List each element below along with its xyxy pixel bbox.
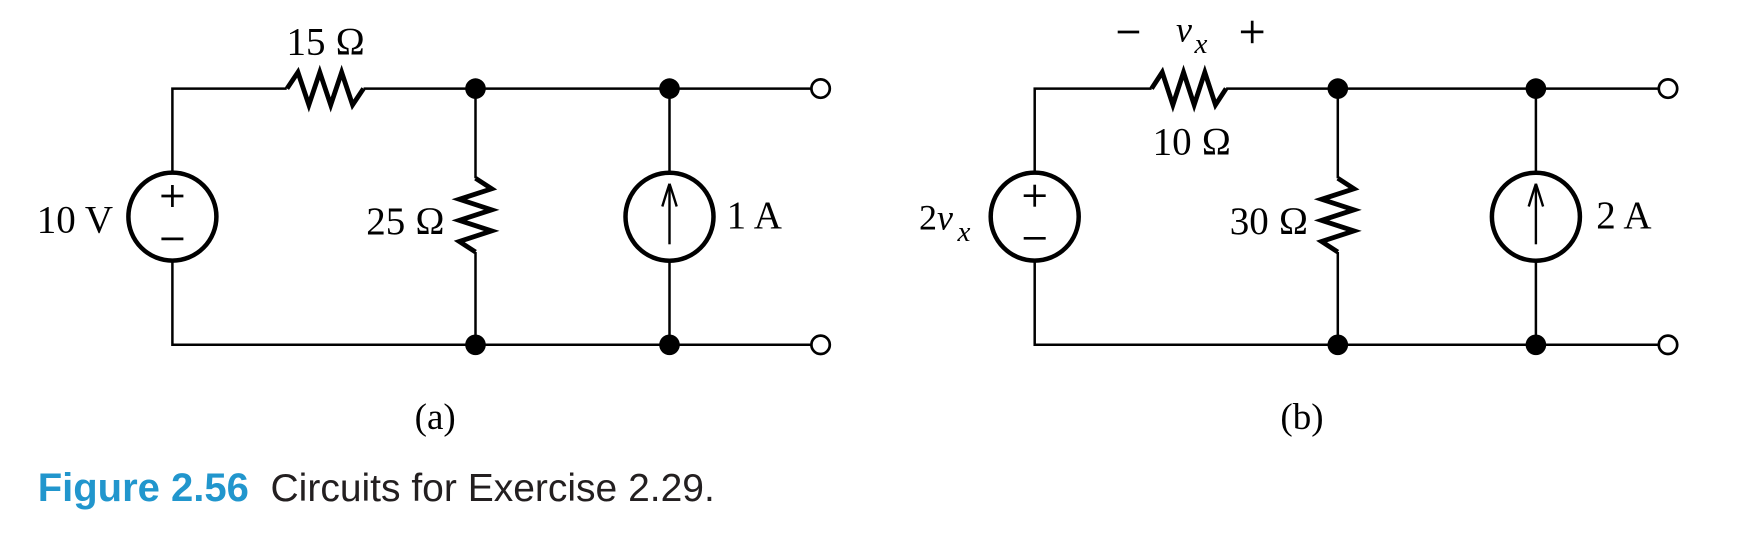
- polarity plus label above 10-ohm (b): [1241, 21, 1264, 44]
- current source (b) arrow: [1529, 184, 1543, 245]
- svg-text:15 Ω: 15 Ω: [286, 21, 365, 64]
- svg-text:2vx: 2vx: [919, 198, 970, 249]
- resistor 10 ohm (b) zigzag: [1152, 72, 1227, 105]
- node junction dot (b) top node B: [1526, 78, 1547, 99]
- resistor 30 ohm (b) zigzag: [1322, 178, 1354, 252]
- current source (a) arrow: [662, 184, 676, 245]
- node junction dot (b) bottom node B: [1526, 335, 1547, 356]
- wire: (b) current source top connector: [1535, 89, 1538, 173]
- current source Is 1A (a) circle: [626, 173, 714, 261]
- voltage source (b) plus sign: [1024, 185, 1046, 207]
- node junction dot (a) top node B: [659, 78, 680, 99]
- open terminal (a) bottom: [811, 336, 829, 354]
- node junction dot (b) top node A: [1328, 78, 1349, 99]
- svg-text:10 V: 10 V: [37, 198, 113, 241]
- svg-text:1 A: 1 A: [727, 194, 782, 237]
- open terminal (a) top: [811, 79, 829, 97]
- svg-text:Figure 2.56: Figure 2.56: [38, 466, 249, 510]
- current source Is 2A (b) circle: [1492, 173, 1580, 261]
- wire: (a) left rail top, source to top-left corner to 15-ohm resistor: [172, 89, 286, 173]
- wire: (a) current source top connector: [668, 89, 671, 173]
- svg-text:Circuits for Exercise 2.29.: Circuits for Exercise 2.29.: [271, 467, 715, 510]
- voltage source (b) minus sign: [1024, 237, 1046, 240]
- resistor 15 ohm (a) zigzag: [287, 72, 364, 105]
- polarity minus label above 10-ohm (b): [1118, 31, 1140, 34]
- voltage source 2vx (b) circle: [991, 173, 1079, 261]
- voltage source (a) minus sign: [161, 238, 183, 241]
- svg-text:10 Ω: 10 Ω: [1153, 121, 1232, 164]
- voltage source Vs 10V (a) circle: [128, 173, 216, 261]
- svg-text:2 A: 2 A: [1596, 194, 1651, 237]
- svg-text:vx: vx: [1176, 10, 1207, 61]
- svg-text:30 Ω: 30 Ω: [1230, 200, 1309, 243]
- node junction dot (a) top node A: [465, 78, 486, 99]
- wire: (a) 25-ohm top connector: [474, 89, 477, 179]
- open terminal (b) top: [1659, 79, 1677, 97]
- svg-text:25 Ω: 25 Ω: [366, 200, 445, 243]
- wire: (b) left rail top, source to top-left corner to 10-ohm resistor: [1035, 89, 1152, 173]
- wire: (b) 30-ohm bottom connector: [1337, 252, 1340, 345]
- node junction dot (b) bottom node A: [1328, 335, 1349, 356]
- wire: (b) left rail bottom and bottom rail to terminal: [1035, 260, 1659, 344]
- node junction dot (a) bottom node B: [659, 335, 680, 356]
- wire: (b) current source bottom connector: [1535, 261, 1538, 345]
- svg-text:(b): (b): [1280, 397, 1323, 438]
- voltage source (a) plus sign: [161, 185, 183, 207]
- wire: (a) left rail bottom and bottom rail to terminal: [172, 260, 811, 344]
- wire: (b) 30-ohm top connector: [1337, 89, 1340, 179]
- wire: (b) top rail from 10-ohm to open terminal: [1226, 87, 1659, 90]
- node junction dot (a) bottom node A: [465, 335, 486, 356]
- wire: (a) current source bottom connector: [668, 261, 671, 345]
- svg-text:(a): (a): [415, 397, 456, 438]
- wire: (a) top rail from 15-ohm to open terminal: [364, 87, 812, 90]
- resistor 25 ohm (a) zigzag: [459, 178, 491, 252]
- open terminal (b) bottom: [1659, 336, 1677, 354]
- wire: (a) 25-ohm bottom connector: [474, 252, 477, 345]
